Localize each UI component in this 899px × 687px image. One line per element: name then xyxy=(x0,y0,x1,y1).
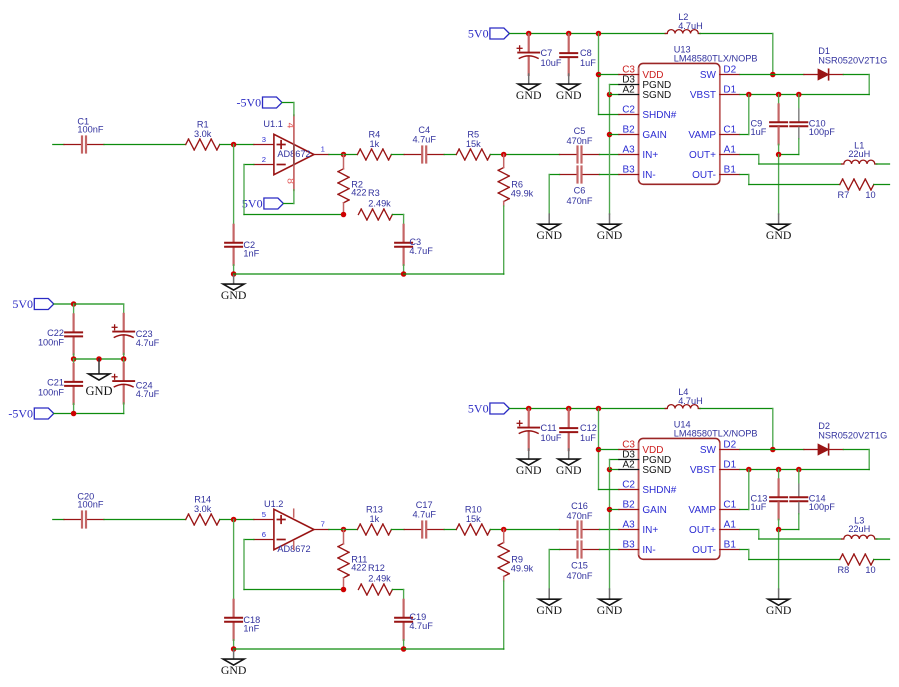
node mid rail gnd xyxy=(96,356,102,362)
svg-text:GND: GND xyxy=(597,228,623,242)
svg-text:C11: C11 xyxy=(541,423,557,433)
capacitor C3 4.7uF xyxy=(403,225,405,242)
svg-text:IN+: IN+ xyxy=(642,150,658,161)
svg-text:OUT+: OUT+ xyxy=(689,525,716,536)
node sgnd xyxy=(607,92,613,98)
wire caps to gnd xyxy=(778,155,780,215)
svg-text:GND: GND xyxy=(766,603,792,617)
wire R7 out xyxy=(874,559,890,561)
svg-text:A2: A2 xyxy=(622,460,635,471)
svg-text:A3: A3 xyxy=(622,145,635,156)
resistor R11 422 xyxy=(338,544,344,547)
svg-text:D1: D1 xyxy=(723,460,736,471)
resistor R7 10 xyxy=(840,179,843,185)
wire shdn vertical xyxy=(598,34,600,115)
wire VAMP to VBST xyxy=(740,134,749,136)
node feedback xyxy=(341,212,347,218)
wire C4-R5 xyxy=(444,154,456,156)
wire output to R2 xyxy=(329,154,358,156)
node C8 xyxy=(566,406,572,412)
wire pgnd xyxy=(610,459,620,461)
wire sgnd xyxy=(610,469,620,471)
capacitor C13 1uF xyxy=(778,470,780,480)
svg-text:1: 1 xyxy=(321,145,325,154)
svg-text:2.49k: 2.49k xyxy=(368,198,391,208)
svg-text:2: 2 xyxy=(262,155,266,164)
resistor R2 422 xyxy=(338,169,344,172)
wire sgnd xyxy=(610,94,620,96)
wire 5V0 to pin8 xyxy=(283,203,294,205)
svg-text:4.7uF: 4.7uF xyxy=(412,510,436,520)
wire -5V0 to rail xyxy=(54,413,74,415)
svg-text:OUT-: OUT- xyxy=(692,170,716,181)
ground under C8 xyxy=(568,449,570,459)
wire C5 to IN+ xyxy=(600,529,620,531)
wire input left xyxy=(53,144,64,146)
svg-text:C1: C1 xyxy=(723,125,736,136)
capacitor C20 100nF xyxy=(64,519,81,521)
svg-text:10uF: 10uF xyxy=(541,433,562,443)
svg-text:GND: GND xyxy=(556,88,582,102)
node VBST C9 xyxy=(746,92,752,98)
svg-text:100nF: 100nF xyxy=(77,125,103,135)
svg-text:22uH: 22uH xyxy=(848,524,870,534)
svg-text:C16: C16 xyxy=(571,501,588,511)
svg-text:LM48580TLX/NOPB: LM48580TLX/NOPB xyxy=(674,428,758,438)
svg-text:B3: B3 xyxy=(622,540,635,551)
wire R-opamp xyxy=(220,144,254,146)
wire down to C18 xyxy=(233,520,235,600)
capacitor C22 100nF xyxy=(73,304,75,315)
wire SW to diode xyxy=(740,449,804,451)
wire OUT+ jog xyxy=(740,154,759,156)
svg-text:B2: B2 xyxy=(622,500,635,511)
resistor R5 15k xyxy=(456,149,459,155)
resistor R13 1k xyxy=(357,524,360,530)
capacitor C16 470nF xyxy=(560,529,577,531)
wire vdd xyxy=(599,449,620,451)
svg-text:49.9k: 49.9k xyxy=(511,189,534,199)
svg-text:470nF: 470nF xyxy=(566,136,592,146)
node C2 gnd xyxy=(231,271,237,277)
wire R6 to rail xyxy=(503,206,505,274)
capacitor C17 4.7uF xyxy=(404,529,421,531)
svg-text:470nF: 470nF xyxy=(566,571,592,581)
wire input left xyxy=(53,519,64,521)
wire rail right xyxy=(404,273,504,275)
svg-text:5V0: 5V0 xyxy=(242,197,263,211)
svg-text:1nF: 1nF xyxy=(243,624,259,634)
svg-text:GND: GND xyxy=(556,463,582,477)
wire output to R2 xyxy=(329,529,358,531)
wire gnd rail xyxy=(234,273,404,275)
svg-text:5V0: 5V0 xyxy=(12,297,33,311)
svg-text:4.7uH: 4.7uH xyxy=(678,21,703,31)
wire 5V0 rail xyxy=(509,408,665,410)
wire gain xyxy=(610,509,620,511)
svg-text:100nF: 100nF xyxy=(77,500,103,510)
inductor L4 4.7uH xyxy=(665,408,667,410)
svg-text:OUT+: OUT+ xyxy=(689,150,716,161)
op-amp U1.2 AD8672 xyxy=(254,519,274,521)
resistor R10 15k xyxy=(456,524,459,530)
node R5/R6 xyxy=(501,527,507,533)
ground under C7 xyxy=(528,74,530,84)
wire C6 to IN- xyxy=(600,549,620,551)
svg-text:2.49k: 2.49k xyxy=(368,573,391,583)
power flag -5V0 at opamp xyxy=(263,97,283,108)
wire bottom rail xyxy=(123,403,125,414)
wire opamp minus feedback xyxy=(244,164,254,166)
svg-text:C15: C15 xyxy=(571,561,588,571)
svg-text:A2: A2 xyxy=(622,85,635,96)
capacitor C10 100pF xyxy=(798,95,800,110)
svg-text:IN-: IN- xyxy=(642,170,655,181)
svg-text:10: 10 xyxy=(865,190,875,200)
wire shdn vertical xyxy=(598,409,600,490)
capacitor C9 1uF xyxy=(778,95,780,105)
wire C5 to IN+ xyxy=(600,154,620,156)
svg-text:C8: C8 xyxy=(580,48,592,58)
capacitor C24 4.7uF xyxy=(123,359,125,364)
node output xyxy=(341,152,347,158)
svg-text:3.0k: 3.0k xyxy=(194,504,212,514)
node mid rail right xyxy=(121,356,127,362)
node SW xyxy=(770,447,776,453)
svg-text:A1: A1 xyxy=(724,520,737,531)
wire L2 to SW xyxy=(700,408,773,410)
svg-text:B1: B1 xyxy=(724,540,737,551)
ground at C6 xyxy=(548,214,550,224)
resistor R6 49.9k xyxy=(498,168,504,171)
svg-text:C17: C17 xyxy=(416,500,433,510)
svg-text:5: 5 xyxy=(262,510,266,519)
capacitor C15 470nF xyxy=(560,549,577,551)
node VBST C9b xyxy=(776,92,782,98)
capacitor C4 4.7uF xyxy=(404,154,421,156)
wire top rail xyxy=(74,303,124,305)
svg-text:15k: 15k xyxy=(466,514,481,524)
svg-text:C7: C7 xyxy=(541,48,553,58)
svg-text:GAIN: GAIN xyxy=(642,130,666,141)
ground at chip right xyxy=(778,589,780,599)
svg-text:B2: B2 xyxy=(622,125,635,136)
wire L1 out xyxy=(876,538,889,540)
svg-text:1uF: 1uF xyxy=(580,433,596,443)
wire pgnd xyxy=(610,84,620,86)
node output xyxy=(341,527,347,533)
wire sgnd vertical xyxy=(609,470,611,590)
svg-text:C1: C1 xyxy=(723,500,736,511)
svg-text:U1.2: U1.2 xyxy=(264,499,283,509)
svg-text:8: 8 xyxy=(285,178,297,184)
svg-text:A3: A3 xyxy=(622,520,635,531)
svg-text:SGND: SGND xyxy=(642,465,671,476)
svg-text:4.7uH: 4.7uH xyxy=(678,396,703,406)
svg-text:GND: GND xyxy=(536,603,562,617)
capacitor C14 100pF xyxy=(798,470,800,485)
node C2 gnd xyxy=(231,646,237,652)
svg-text:GND: GND xyxy=(516,88,542,102)
svg-text:100pF: 100pF xyxy=(809,502,835,512)
svg-text:C6: C6 xyxy=(574,186,586,196)
wire 5V0 to rail xyxy=(54,303,74,305)
capacitor C12 1uF xyxy=(568,409,570,412)
power flag 5V0 at opamp xyxy=(264,198,284,209)
node C3 gnd xyxy=(401,271,407,277)
svg-text:1uF: 1uF xyxy=(580,58,596,68)
svg-text:OUT-: OUT- xyxy=(692,545,716,556)
capacitor C7 10uF xyxy=(528,34,530,37)
svg-text:100pF: 100pF xyxy=(809,127,835,137)
svg-text:GND: GND xyxy=(85,384,112,398)
svg-text:470nF: 470nF xyxy=(566,511,592,521)
svg-text:3.0k: 3.0k xyxy=(194,129,212,139)
svg-text:4.7uF: 4.7uF xyxy=(136,338,160,348)
wire 5V0 rail xyxy=(509,33,665,35)
node vdd xyxy=(596,72,602,78)
resistor R8 10 xyxy=(840,554,843,560)
wire gnd rail xyxy=(234,648,404,650)
wire C3 to rail xyxy=(403,640,405,649)
svg-text:R7: R7 xyxy=(838,190,850,200)
capacitor C8 1uF xyxy=(568,34,570,37)
node VBST C10 xyxy=(796,467,802,473)
wire L1 out xyxy=(876,163,889,165)
wire VAMP to VBST xyxy=(740,509,749,511)
svg-text:5V0: 5V0 xyxy=(468,27,489,41)
svg-text:422: 422 xyxy=(351,562,366,572)
node -5V0 rail xyxy=(71,411,77,417)
svg-text:GND: GND xyxy=(597,603,623,617)
svg-text:B1: B1 xyxy=(724,165,737,176)
wire OUT- jog xyxy=(740,174,749,176)
svg-text:NSR0520V2T1G: NSR0520V2T1G xyxy=(818,55,887,65)
svg-text:4.7uF: 4.7uF xyxy=(409,246,433,256)
resistor R1 3.0k xyxy=(186,139,189,145)
wire opamp minus feedback xyxy=(244,539,254,541)
ground at chip right xyxy=(778,214,780,224)
svg-text:3: 3 xyxy=(262,135,266,144)
node VBST C10 xyxy=(796,92,802,98)
wire L2 to SW xyxy=(700,33,773,35)
wire R5 to node xyxy=(490,154,559,156)
svg-text:100nF: 100nF xyxy=(38,337,64,347)
wire down to C2 xyxy=(233,145,235,225)
svg-text:IN-: IN- xyxy=(642,545,655,556)
svg-text:4.7uF: 4.7uF xyxy=(409,621,433,631)
svg-text:5V0: 5V0 xyxy=(468,402,489,416)
wire R5 to node xyxy=(490,529,559,531)
wire C-R xyxy=(104,519,186,521)
capacitor C5 470nF xyxy=(560,154,577,156)
power flag -5V0 supply xyxy=(34,408,54,419)
node sgnd xyxy=(607,467,613,473)
svg-text:SHDN#: SHDN# xyxy=(642,110,676,121)
power flag 5V0 at chip xyxy=(490,28,510,39)
svg-text:4.7uF: 4.7uF xyxy=(136,389,160,399)
svg-text:VBST: VBST xyxy=(690,90,716,101)
node 5V0 rail xyxy=(71,301,77,307)
svg-text:6: 6 xyxy=(262,530,266,539)
amplifier IC U14 LM48580TLX/NOPB xyxy=(639,438,720,559)
svg-text:GND: GND xyxy=(221,288,247,302)
svg-text:C2: C2 xyxy=(622,480,635,491)
svg-text:GAIN: GAIN xyxy=(642,505,666,516)
svg-text:D2: D2 xyxy=(723,65,736,76)
svg-text:R3: R3 xyxy=(368,188,380,198)
capacitor C23 4.7uF xyxy=(123,314,125,331)
svg-text:NSR0520V2T1G: NSR0520V2T1G xyxy=(818,430,887,440)
svg-text:1uF: 1uF xyxy=(751,127,767,137)
diode D1 NSR0520V2T1G xyxy=(804,74,818,76)
wire C2 to rail xyxy=(233,265,235,274)
ground at sgnd xyxy=(609,589,611,599)
svg-text:SHDN#: SHDN# xyxy=(642,485,676,496)
svg-text:VBST: VBST xyxy=(690,465,716,476)
capacitor C19 4.7uF xyxy=(403,600,405,617)
wire C4-R5 xyxy=(444,529,456,531)
wire vdd xyxy=(599,74,620,76)
svg-text:D1: D1 xyxy=(723,85,736,96)
wire diode to VBST xyxy=(843,449,869,451)
capacitor C11 10uF xyxy=(528,409,530,412)
capacitor C6 470nF xyxy=(560,174,577,176)
svg-text:422: 422 xyxy=(351,187,366,197)
svg-text:U1.1: U1.1 xyxy=(263,119,282,129)
svg-text:GND: GND xyxy=(536,228,562,242)
wire SW to diode xyxy=(740,74,804,76)
resistor R9 49.9k xyxy=(498,543,504,546)
wire R4-C4 xyxy=(391,529,404,531)
power flag 5V0 supply xyxy=(34,299,54,310)
node vdd xyxy=(596,447,602,453)
ground power block xyxy=(98,359,100,373)
svg-text:1nF: 1nF xyxy=(243,249,259,259)
node C8 xyxy=(566,31,572,37)
wire C6 to IN- xyxy=(600,174,620,176)
wire rail right xyxy=(404,648,504,650)
wire gain xyxy=(610,134,620,136)
ground at C6 xyxy=(548,589,550,599)
svg-text:100nF: 100nF xyxy=(38,388,64,398)
node gain gnd xyxy=(607,507,613,513)
diode D2 NSR0520V2T1G xyxy=(804,449,818,451)
amplifier IC U13 LM48580TLX/NOPB xyxy=(639,63,720,184)
node feedback xyxy=(341,587,347,593)
ground under C7 xyxy=(528,449,530,459)
svg-text:GND: GND xyxy=(516,463,542,477)
node opamp plus input xyxy=(231,517,237,523)
ground under C2 xyxy=(233,274,235,284)
node shdn rail xyxy=(596,31,602,37)
wire R4-C4 xyxy=(391,154,404,156)
svg-text:IN+: IN+ xyxy=(642,525,658,536)
svg-text:C4: C4 xyxy=(418,125,430,135)
node caps gnd xyxy=(776,527,782,533)
svg-text:-5V0: -5V0 xyxy=(8,407,33,421)
wire OUT+ jog xyxy=(740,529,759,531)
svg-text:SW: SW xyxy=(700,70,717,81)
svg-text:R12: R12 xyxy=(368,563,385,573)
svg-text:SGND: SGND xyxy=(642,90,671,101)
capacitor C18 1nF xyxy=(233,600,235,617)
svg-text:4: 4 xyxy=(285,123,297,129)
node C7 xyxy=(526,406,532,412)
svg-text:1uF: 1uF xyxy=(751,502,767,512)
svg-text:C12: C12 xyxy=(580,423,597,433)
inductor L1 22uH xyxy=(842,163,844,165)
op-amp U1.1 AD8672 xyxy=(254,144,274,146)
capacitor C21 100nF xyxy=(73,359,75,365)
svg-text:R8: R8 xyxy=(838,565,850,575)
wire R7 out xyxy=(874,184,890,186)
node VBST C9 xyxy=(746,467,752,473)
capacitor C1 100nF xyxy=(64,144,81,146)
wire diode to VBST xyxy=(843,74,869,76)
node VBST C9b xyxy=(776,467,782,473)
svg-text:49.9k: 49.9k xyxy=(511,564,534,574)
wire R3 to C3 xyxy=(392,589,403,591)
node opamp plus input xyxy=(231,142,237,148)
wire sgnd vertical xyxy=(609,95,611,215)
svg-text:22uH: 22uH xyxy=(848,149,870,159)
svg-text:1k: 1k xyxy=(370,514,380,524)
node mid rail left xyxy=(71,356,77,362)
svg-text:-5V0: -5V0 xyxy=(237,96,262,110)
resistor R12 2.49k xyxy=(358,584,361,590)
inductor L3 22uH xyxy=(842,538,844,540)
wire C6 left to gnd xyxy=(549,549,559,551)
svg-text:7: 7 xyxy=(321,520,325,529)
svg-text:10: 10 xyxy=(865,565,875,575)
node SW xyxy=(770,72,776,78)
resistor R4 1k xyxy=(357,149,360,155)
wire C3 to rail xyxy=(403,265,405,274)
wire C2 to rail xyxy=(233,640,235,649)
wire R-opamp xyxy=(220,519,254,521)
wire C6 left to gnd xyxy=(549,174,559,176)
ground at sgnd xyxy=(609,214,611,224)
node shdn rail xyxy=(596,406,602,412)
svg-text:VAMP: VAMP xyxy=(688,505,716,516)
svg-text:470nF: 470nF xyxy=(566,196,592,206)
svg-text:10uF: 10uF xyxy=(541,58,562,68)
svg-text:GND: GND xyxy=(221,663,247,677)
capacitor C2 1nF xyxy=(233,225,235,242)
svg-text:LM48580TLX/NOPB: LM48580TLX/NOPB xyxy=(674,53,758,63)
node R5/R6 xyxy=(501,152,507,158)
node gain gnd xyxy=(607,132,613,138)
wire C-R xyxy=(104,144,186,146)
resistor R3 2.49k xyxy=(358,209,361,215)
svg-text:GND: GND xyxy=(766,228,792,242)
node C3 gnd xyxy=(401,646,407,652)
svg-text:C5: C5 xyxy=(574,126,586,136)
wire OUT- jog xyxy=(740,549,749,551)
svg-text:SW: SW xyxy=(700,445,717,456)
wire -5V0 to pin4 xyxy=(282,102,294,104)
svg-text:VAMP: VAMP xyxy=(688,130,716,141)
svg-text:C21: C21 xyxy=(47,378,64,388)
ground under C2 xyxy=(233,649,235,659)
wire R6 to rail xyxy=(503,581,505,649)
svg-text:C2: C2 xyxy=(622,105,635,116)
resistor R14 3.0k xyxy=(186,514,189,520)
svg-text:15k: 15k xyxy=(466,139,481,149)
svg-text:4.7uF: 4.7uF xyxy=(412,135,436,145)
power flag 5V0 at chip xyxy=(490,403,510,414)
